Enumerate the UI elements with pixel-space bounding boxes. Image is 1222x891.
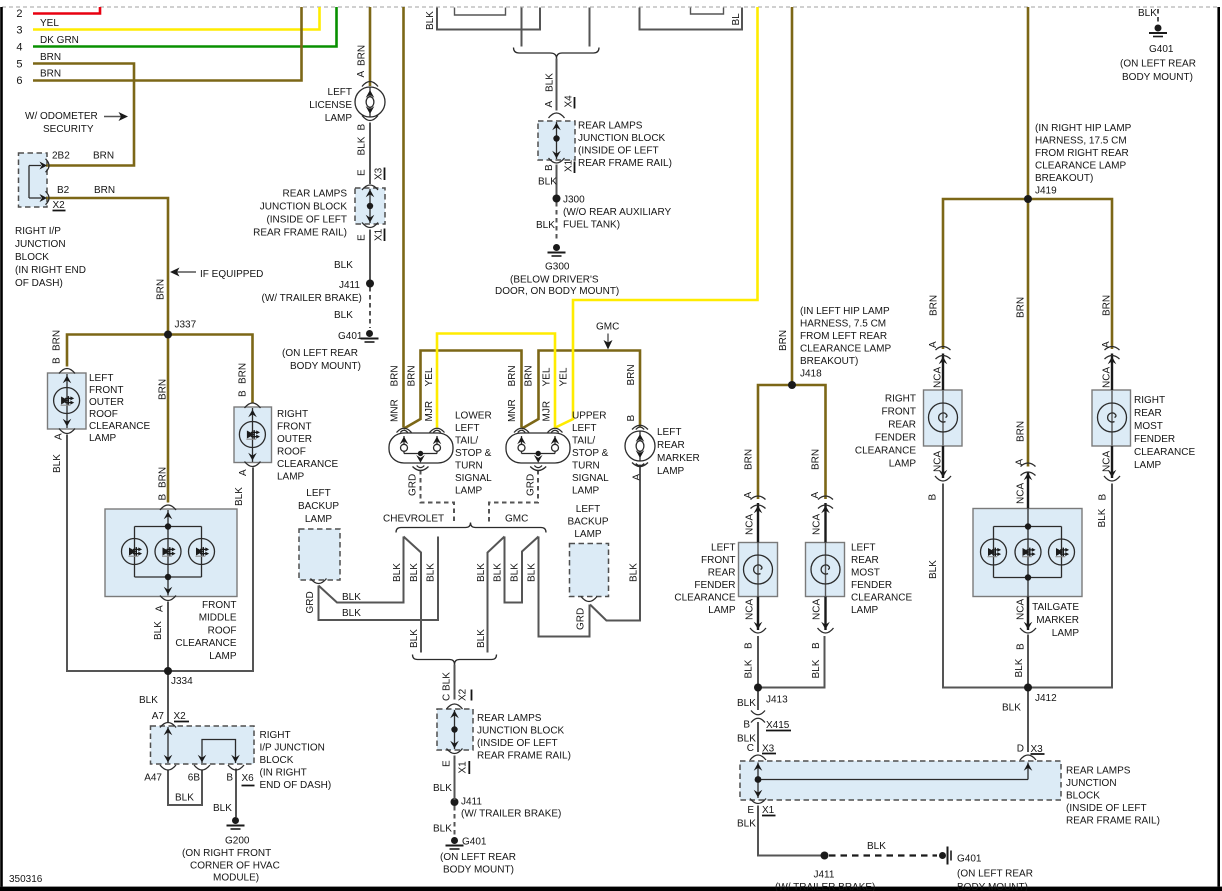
svg-text:BRN: BRN <box>744 449 755 470</box>
svg-text:LAMP: LAMP <box>305 514 333 525</box>
svg-text:FENDER: FENDER <box>875 433 916 444</box>
svg-text:B: B <box>1016 643 1027 650</box>
svg-text:REAR FRAME RAIL): REAR FRAME RAIL) <box>1066 816 1160 827</box>
svg-text:(BELOW DRIVER'S: (BELOW DRIVER'S <box>510 275 599 286</box>
svg-text:BREAKOUT): BREAKOUT) <box>800 356 858 367</box>
svg-text:LAMP: LAMP <box>325 113 353 124</box>
svg-text:X2: X2 <box>174 711 187 722</box>
svg-text:BACKUP: BACKUP <box>298 501 339 512</box>
svg-text:BRN: BRN <box>1102 295 1113 316</box>
svg-text:BRN: BRN <box>390 365 401 386</box>
svg-text:TAIL/: TAIL/ <box>455 436 478 447</box>
svg-text:BLK: BLK <box>867 841 886 852</box>
svg-text:JUNCTION BLOCK: JUNCTION BLOCK <box>477 726 565 737</box>
svg-text:GRD: GRD <box>576 608 587 630</box>
svg-text:X2: X2 <box>458 688 469 701</box>
svg-text:TURN: TURN <box>455 461 483 472</box>
svg-text:FRONT: FRONT <box>202 600 236 611</box>
svg-text:(ON LEFT REAR: (ON LEFT REAR <box>1120 59 1196 70</box>
svg-text:BRN: BRN <box>52 330 63 351</box>
svg-text:HARNESS, 17.5 CM: HARNESS, 17.5 CM <box>1035 136 1127 147</box>
svg-text:BLK: BLK <box>234 487 245 506</box>
svg-text:NCA: NCA <box>745 599 756 620</box>
svg-text:BLK: BLK <box>1014 658 1025 677</box>
svg-text:TAIL/: TAIL/ <box>572 436 595 447</box>
svg-text:(W/ TRAILER BRAKE): (W/ TRAILER BRAKE) <box>775 882 875 891</box>
svg-text:OUTER: OUTER <box>277 434 312 445</box>
svg-text:BLK: BLK <box>52 454 63 473</box>
svg-text:BLK: BLK <box>433 824 452 835</box>
svg-text:BRN: BRN <box>1016 421 1027 442</box>
svg-text:E: E <box>357 169 368 176</box>
svg-text:BRN: BRN <box>929 295 940 316</box>
svg-text:(ON RIGHT FRONT: (ON RIGHT FRONT <box>182 848 271 859</box>
svg-text:LEFT: LEFT <box>711 543 735 554</box>
svg-text:BODY MOUNT): BODY MOUNT) <box>957 882 1028 891</box>
svg-text:JUNCTION BLOCK: JUNCTION BLOCK <box>260 202 348 213</box>
svg-text:RIGHT: RIGHT <box>1134 395 1165 406</box>
svg-text:BREAKOUT): BREAKOUT) <box>1035 173 1093 184</box>
svg-text:J411: J411 <box>814 870 835 881</box>
svg-text:350316: 350316 <box>9 874 43 885</box>
svg-text:BLK: BLK <box>510 563 521 582</box>
svg-text:MJR: MJR <box>424 401 435 422</box>
svg-text:B: B <box>238 390 249 397</box>
svg-text:ROOF: ROOF <box>89 409 118 420</box>
svg-text:FROM LEFT REAR: FROM LEFT REAR <box>800 331 887 342</box>
svg-text:BLK: BLK <box>409 563 420 582</box>
svg-text:CLEARANCE: CLEARANCE <box>855 446 916 457</box>
svg-text:NCA: NCA <box>812 599 823 620</box>
svg-text:LOWER: LOWER <box>455 411 492 422</box>
svg-text:B: B <box>1098 494 1109 501</box>
svg-text:B: B <box>544 164 555 171</box>
svg-text:BLK: BLK <box>536 220 555 231</box>
svg-text:3: 3 <box>16 25 22 37</box>
svg-text:J411: J411 <box>339 280 360 291</box>
svg-text:LEFT: LEFT <box>851 543 875 554</box>
svg-text:A: A <box>356 71 367 78</box>
svg-text:BRN: BRN <box>626 364 637 385</box>
svg-text:LAMP: LAMP <box>455 486 483 497</box>
svg-text:BLK: BLK <box>538 177 557 188</box>
svg-text:BLK: BLK <box>476 563 487 582</box>
svg-text:LEFT: LEFT <box>306 488 330 499</box>
svg-text:(IN RIGHT END: (IN RIGHT END <box>15 265 86 276</box>
svg-text:X415: X415 <box>766 720 790 731</box>
svg-text:HARNESS, 7.5 CM: HARNESS, 7.5 CM <box>800 319 886 330</box>
svg-text:JUNCTION: JUNCTION <box>15 239 66 250</box>
svg-text:BLK: BLK <box>334 310 353 321</box>
svg-text:REAR LAMPS: REAR LAMPS <box>1066 766 1131 777</box>
svg-text:W/ ODOMETER: W/ ODOMETER <box>25 111 98 122</box>
svg-text:REAR FRAME RAIL): REAR FRAME RAIL) <box>477 751 571 762</box>
svg-text:MARKER: MARKER <box>657 453 700 464</box>
svg-text:YEL: YEL <box>40 18 59 29</box>
svg-text:END OF DASH): END OF DASH) <box>260 780 332 791</box>
svg-text:LAMP: LAMP <box>89 433 117 444</box>
svg-text:2B2: 2B2 <box>52 151 70 162</box>
svg-text:STOP &: STOP & <box>455 448 492 459</box>
svg-text:DK GRN: DK GRN <box>40 35 79 46</box>
svg-text:(INSIDE OF LEFT: (INSIDE OF LEFT <box>578 146 659 157</box>
svg-text:E: E <box>747 805 754 816</box>
svg-text:A: A <box>632 474 643 481</box>
svg-text:G401: G401 <box>462 837 487 848</box>
svg-text:BLK: BLK <box>426 563 437 582</box>
svg-text:LAMP: LAMP <box>574 529 602 540</box>
svg-text:TURN: TURN <box>572 461 600 472</box>
svg-text:BRN: BRN <box>507 365 518 386</box>
svg-text:LEFT: LEFT <box>572 423 596 434</box>
svg-text:G300: G300 <box>545 262 570 273</box>
svg-text:IF EQUIPPED: IF EQUIPPED <box>200 269 263 280</box>
svg-text:UPPER: UPPER <box>572 411 606 422</box>
svg-text:REAR: REAR <box>851 555 879 566</box>
svg-text:A: A <box>810 492 821 499</box>
svg-text:I/P JUNCTION: I/P JUNCTION <box>260 743 325 754</box>
svg-text:REAR: REAR <box>888 420 916 431</box>
svg-text:FRONT: FRONT <box>89 385 123 396</box>
svg-text:B2: B2 <box>57 185 70 196</box>
svg-text:OF DASH): OF DASH) <box>15 278 63 289</box>
svg-text:BRN: BRN <box>357 45 368 66</box>
svg-text:BLK: BLK <box>433 783 452 794</box>
svg-text:BLK: BLK <box>175 793 194 804</box>
svg-text:CLEARANCE LAMP: CLEARANCE LAMP <box>800 344 891 355</box>
svg-text:J419: J419 <box>1035 186 1057 197</box>
svg-text:BRN: BRN <box>158 379 169 400</box>
svg-text:REAR LAMPS: REAR LAMPS <box>477 713 542 724</box>
svg-text:BLK: BLK <box>1097 508 1108 527</box>
svg-text:BLK: BLK <box>928 560 939 579</box>
svg-text:LAMP: LAMP <box>657 466 685 477</box>
svg-text:LAMP: LAMP <box>889 459 917 470</box>
svg-text:LAMP: LAMP <box>1134 460 1162 471</box>
svg-text:MIDDLE: MIDDLE <box>199 613 237 624</box>
svg-text:G401: G401 <box>1149 44 1174 55</box>
svg-text:BLOCK: BLOCK <box>1066 791 1100 802</box>
svg-text:NCA: NCA <box>745 514 756 535</box>
svg-text:GMC: GMC <box>505 514 528 525</box>
svg-text:X3: X3 <box>374 167 385 180</box>
svg-text:A: A <box>928 341 939 348</box>
svg-text:BLK: BLK <box>409 629 420 648</box>
svg-text:YEL: YEL <box>424 367 435 386</box>
svg-text:B: B <box>357 124 368 131</box>
svg-text:(IN RIGHT: (IN RIGHT <box>260 768 307 779</box>
svg-text:E: E <box>442 760 453 767</box>
svg-text:SIGNAL: SIGNAL <box>572 473 609 484</box>
svg-text:X4: X4 <box>564 95 575 108</box>
svg-text:C BLK: C BLK <box>442 672 453 701</box>
svg-text:CLEARANCE: CLEARANCE <box>89 421 150 432</box>
svg-text:FRONT: FRONT <box>701 555 735 566</box>
svg-text:BRN: BRN <box>811 449 822 470</box>
svg-text:BLK: BLK <box>737 698 756 709</box>
svg-text:5: 5 <box>16 58 22 70</box>
svg-text:BLK: BLK <box>342 608 361 619</box>
svg-text:J337: J337 <box>175 320 197 331</box>
svg-text:LICENSE: LICENSE <box>309 100 352 111</box>
svg-text:BLK: BLK <box>153 621 164 640</box>
svg-text:G200: G200 <box>225 836 250 847</box>
svg-text:CLEARANCE: CLEARANCE <box>175 638 236 649</box>
svg-text:MOST: MOST <box>851 568 880 579</box>
svg-text:FRONT: FRONT <box>882 407 916 418</box>
svg-text:BLK: BLK <box>357 136 368 155</box>
svg-text:LEFT: LEFT <box>576 504 600 515</box>
svg-text:BRN: BRN <box>1016 297 1027 318</box>
svg-text:RIGHT: RIGHT <box>277 409 308 420</box>
svg-text:LAMP: LAMP <box>708 605 736 616</box>
svg-text:RIGHT: RIGHT <box>260 730 291 741</box>
svg-text:REAR FRAME RAIL): REAR FRAME RAIL) <box>253 228 347 239</box>
svg-text:REAR LAMPS: REAR LAMPS <box>578 121 643 132</box>
svg-text:4: 4 <box>16 42 22 54</box>
svg-text:BLK: BLK <box>811 659 822 678</box>
svg-text:X1: X1 <box>374 228 385 241</box>
svg-text:A7: A7 <box>152 711 165 722</box>
svg-text:(IN RIGHT HIP LAMP: (IN RIGHT HIP LAMP <box>1035 123 1132 134</box>
svg-text:CHEVROLET: CHEVROLET <box>383 514 444 525</box>
svg-text:CLEARANCE: CLEARANCE <box>1134 447 1195 458</box>
svg-text:BLK: BLK <box>527 563 538 582</box>
svg-text:(W/O REAR AUXILIARY: (W/O REAR AUXILIARY <box>563 207 672 218</box>
svg-text:REAR LAMPS: REAR LAMPS <box>283 189 348 200</box>
svg-text:NCA: NCA <box>1016 483 1027 504</box>
svg-text:(INSIDE OF LEFT: (INSIDE OF LEFT <box>1066 803 1147 814</box>
svg-text:BLK: BLK <box>213 803 232 814</box>
svg-text:JUNCTION: JUNCTION <box>1066 778 1117 789</box>
svg-text:BLK: BLK <box>1002 703 1021 714</box>
svg-text:ROOF: ROOF <box>208 625 237 636</box>
svg-text:A: A <box>1015 459 1026 466</box>
svg-text:A: A <box>1101 341 1112 348</box>
svg-text:B: B <box>811 642 822 649</box>
svg-text:BLK: BLK <box>342 592 361 603</box>
svg-text:NCA: NCA <box>1102 367 1113 388</box>
svg-text:OUTER: OUTER <box>89 397 124 408</box>
svg-text:A47: A47 <box>144 773 162 784</box>
svg-text:BRN: BRN <box>158 467 169 488</box>
svg-text:X1: X1 <box>458 761 469 774</box>
svg-text:LAMP: LAMP <box>277 472 305 483</box>
svg-text:BRN: BRN <box>778 330 789 351</box>
svg-text:MJR: MJR <box>542 401 553 422</box>
svg-text:BLK: BLK <box>334 260 353 271</box>
svg-text:CLEARANCE: CLEARANCE <box>674 593 735 604</box>
svg-text:BRN: BRN <box>93 151 114 162</box>
svg-text:BRN: BRN <box>524 365 535 386</box>
svg-text:MODULE): MODULE) <box>213 873 259 884</box>
svg-text:B: B <box>928 494 939 501</box>
svg-text:BODY MOUNT): BODY MOUNT) <box>290 361 361 372</box>
svg-text:JUNCTION BLOCK: JUNCTION BLOCK <box>578 133 666 144</box>
svg-text:MOST: MOST <box>1134 421 1163 432</box>
svg-text:BLK: BLK <box>545 73 556 92</box>
svg-text:NCA: NCA <box>1016 599 1027 620</box>
svg-text:MNR: MNR <box>507 399 518 422</box>
svg-text:CORNER OF HVAC: CORNER OF HVAC <box>190 861 280 872</box>
svg-text:6: 6 <box>16 75 22 87</box>
svg-text:YEL: YEL <box>559 367 570 386</box>
svg-text:A: A <box>238 469 249 476</box>
svg-text:C: C <box>747 743 754 754</box>
svg-text:RIGHT I/P: RIGHT I/P <box>15 226 61 237</box>
svg-text:BRN: BRN <box>156 279 167 300</box>
svg-text:J334: J334 <box>171 676 193 687</box>
svg-text:CLEARANCE: CLEARANCE <box>851 593 912 604</box>
svg-text:NCA: NCA <box>933 367 944 388</box>
svg-text:LAMP: LAMP <box>851 605 879 616</box>
svg-text:(W/ TRAILER BRAKE): (W/ TRAILER BRAKE) <box>461 809 561 820</box>
svg-text:B: B <box>743 720 750 731</box>
svg-text:(ON LEFT REAR: (ON LEFT REAR <box>957 869 1033 880</box>
svg-text:A: A <box>54 433 65 440</box>
svg-text:NCA: NCA <box>933 451 944 472</box>
svg-text:LEFT: LEFT <box>89 373 113 384</box>
svg-text:J413: J413 <box>766 695 788 706</box>
svg-text:FENDER: FENDER <box>851 580 892 591</box>
svg-text:BRN: BRN <box>238 363 249 384</box>
svg-text:STOP &: STOP & <box>572 448 609 459</box>
svg-text:(IN LEFT HIP LAMP: (IN LEFT HIP LAMP <box>800 306 890 317</box>
svg-text:X1: X1 <box>762 805 775 816</box>
svg-text:B: B <box>158 494 169 501</box>
svg-text:FRONT: FRONT <box>277 422 311 433</box>
svg-text:(ON LEFT REAR: (ON LEFT REAR <box>440 852 516 863</box>
svg-text:SECURITY: SECURITY <box>43 124 94 135</box>
svg-text:BACKUP: BACKUP <box>567 517 608 528</box>
svg-text:2: 2 <box>16 8 22 20</box>
svg-text:(ON LEFT REAR: (ON LEFT REAR <box>282 348 358 359</box>
svg-text:FROM RIGHT REAR: FROM RIGHT REAR <box>1035 148 1129 159</box>
svg-text:A: A <box>743 492 754 499</box>
svg-text:J411: J411 <box>461 797 482 808</box>
svg-text:BLK: BLK <box>476 629 487 648</box>
svg-text:BLOCK: BLOCK <box>15 252 49 263</box>
svg-text:E: E <box>357 234 368 241</box>
svg-text:A: A <box>155 605 166 612</box>
svg-text:BLK: BLK <box>629 563 640 582</box>
svg-text:FENDER: FENDER <box>1134 434 1175 445</box>
svg-text:GRD: GRD <box>305 591 316 613</box>
svg-text:6B: 6B <box>188 773 201 784</box>
svg-text:REAR FRAME RAIL): REAR FRAME RAIL) <box>578 158 672 169</box>
svg-text:CLEARANCE LAMP: CLEARANCE LAMP <box>1035 161 1126 172</box>
svg-text:BRN: BRN <box>94 185 115 196</box>
svg-text:REAR: REAR <box>657 440 685 451</box>
svg-text:LEFT: LEFT <box>328 87 352 98</box>
svg-text:LEFT: LEFT <box>657 427 681 438</box>
svg-text:B: B <box>744 642 755 649</box>
svg-text:BODY MOUNT): BODY MOUNT) <box>1122 72 1193 83</box>
svg-text:BLK: BLK <box>392 563 403 582</box>
svg-text:MNR: MNR <box>390 399 401 422</box>
svg-text:GRD: GRD <box>526 474 537 496</box>
svg-text:GMC: GMC <box>596 322 619 333</box>
svg-text:B: B <box>52 357 63 364</box>
svg-text:NCA: NCA <box>812 514 823 535</box>
svg-text:REAR: REAR <box>1134 408 1162 419</box>
svg-text:LAMP: LAMP <box>572 486 600 497</box>
svg-text:ROOF: ROOF <box>277 447 306 458</box>
svg-text:FUEL TANK): FUEL TANK) <box>563 220 620 231</box>
svg-text:BLK: BLK <box>493 563 504 582</box>
svg-text:BLK: BLK <box>139 695 158 706</box>
svg-text:BRN: BRN <box>407 365 418 386</box>
svg-text:BLOCK: BLOCK <box>260 755 294 766</box>
svg-text:BLK: BLK <box>744 659 755 678</box>
svg-text:LAMP: LAMP <box>209 651 237 662</box>
svg-text:DOOR, ON BODY MOUNT): DOOR, ON BODY MOUNT) <box>495 286 619 297</box>
svg-text:J412: J412 <box>1035 693 1057 704</box>
svg-text:BLK: BLK <box>737 819 756 830</box>
svg-text:BLK: BLK <box>1138 8 1157 19</box>
svg-text:G401: G401 <box>338 331 363 342</box>
svg-text:B: B <box>626 415 637 422</box>
svg-text:(W/ TRAILER BRAKE): (W/ TRAILER BRAKE) <box>262 293 362 304</box>
svg-text:BRN: BRN <box>40 69 61 80</box>
svg-text:CLEARANCE: CLEARANCE <box>277 459 338 470</box>
svg-text:BL: BL <box>731 13 742 26</box>
svg-text:(INSIDE OF LEFT: (INSIDE OF LEFT <box>477 738 558 749</box>
svg-text:TAILGATE: TAILGATE <box>1032 602 1079 613</box>
svg-text:B: B <box>226 773 233 784</box>
svg-text:RIGHT: RIGHT <box>885 394 916 405</box>
svg-text:FENDER: FENDER <box>694 580 735 591</box>
svg-text:YEL: YEL <box>542 367 553 386</box>
svg-text:BODY MOUNT): BODY MOUNT) <box>443 865 514 876</box>
svg-text:NCA: NCA <box>1102 451 1113 472</box>
svg-text:D: D <box>1017 744 1024 755</box>
svg-text:BLK: BLK <box>425 11 436 30</box>
svg-text:A: A <box>544 101 555 108</box>
svg-text:J418: J418 <box>800 369 822 380</box>
svg-text:REAR: REAR <box>708 568 736 579</box>
svg-text:(INSIDE OF LEFT: (INSIDE OF LEFT <box>266 215 347 226</box>
svg-text:BRN: BRN <box>40 52 61 63</box>
svg-text:X6: X6 <box>242 773 255 784</box>
svg-text:GRD: GRD <box>408 474 419 496</box>
svg-text:X2: X2 <box>53 200 66 211</box>
svg-text:LEFT: LEFT <box>455 423 479 434</box>
svg-text:MARKER: MARKER <box>1036 615 1079 626</box>
svg-text:LAMP: LAMP <box>1052 628 1080 639</box>
svg-text:J300: J300 <box>563 195 585 206</box>
svg-text:X1: X1 <box>564 159 575 172</box>
svg-text:G401: G401 <box>957 854 982 865</box>
svg-text:SIGNAL: SIGNAL <box>455 473 492 484</box>
